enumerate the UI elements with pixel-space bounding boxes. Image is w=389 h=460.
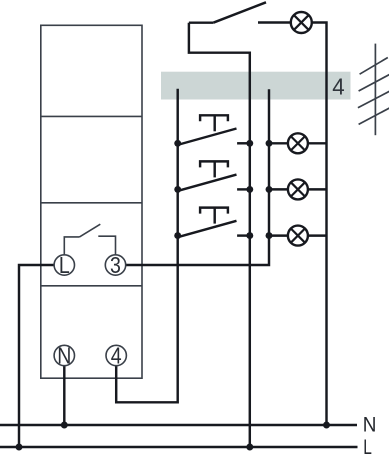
svg-text:L: L — [363, 434, 372, 458]
svg-text:4: 4 — [111, 343, 122, 369]
svg-text:3: 3 — [110, 252, 121, 278]
svg-text:N: N — [363, 414, 377, 437]
svg-text:4: 4 — [332, 73, 345, 100]
svg-text:L: L — [59, 252, 70, 278]
svg-text:N: N — [57, 343, 71, 369]
